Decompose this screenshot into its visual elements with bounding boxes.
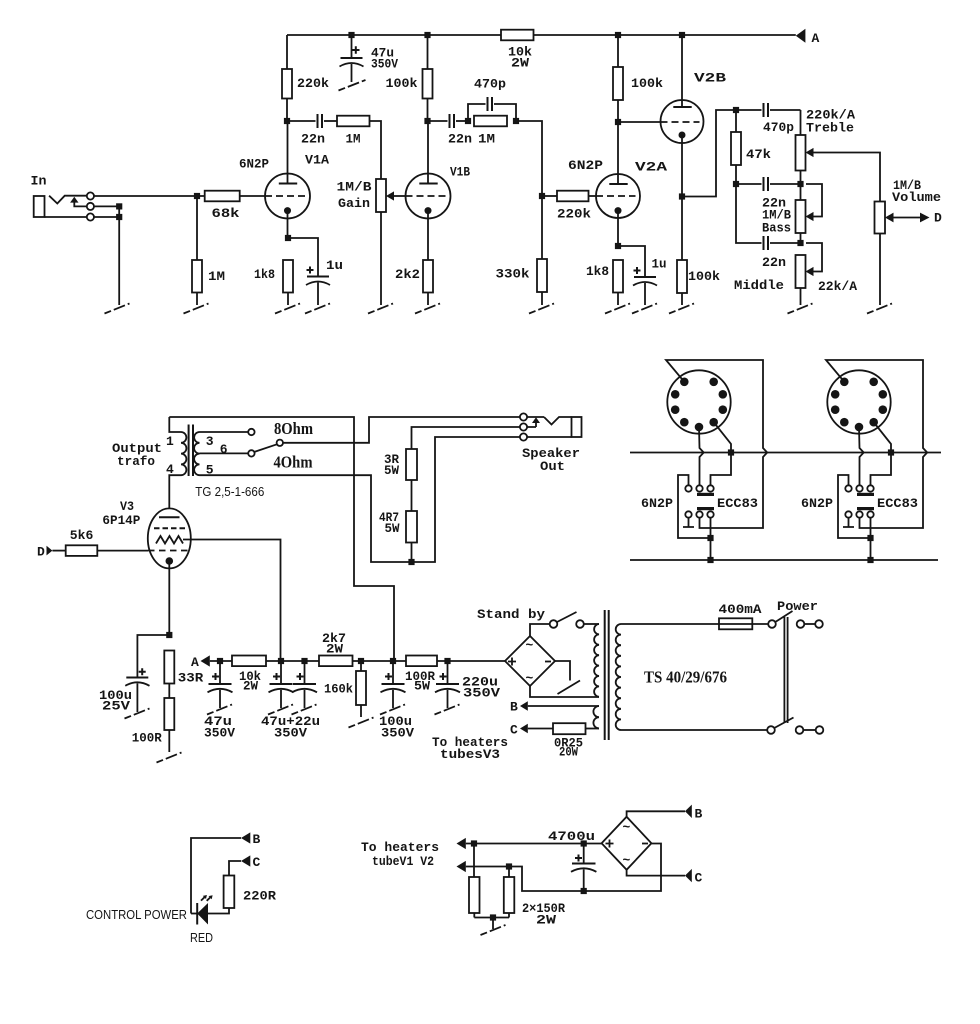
tube socket V2 (top view) bbox=[827, 370, 890, 433]
svg-text:1u: 1u bbox=[326, 258, 343, 273]
potentiometer 1M/B Bass bbox=[762, 184, 822, 243]
junction bbox=[301, 658, 307, 664]
ground bbox=[415, 304, 440, 314]
resistor 100k (V2B cathode load) bbox=[677, 260, 720, 305]
svg-text:8Ohm: 8Ohm bbox=[274, 419, 313, 438]
triode V1B bbox=[406, 121, 471, 260]
svg-text:Bass: Bass bbox=[762, 221, 791, 236]
junction V2A grid node bbox=[539, 193, 545, 199]
wire 47k to middle cap bbox=[736, 184, 762, 243]
svg-text:V1B: V1B bbox=[450, 165, 470, 180]
svg-text:330k: 330k bbox=[496, 267, 530, 282]
svg-text:2W: 2W bbox=[511, 56, 529, 71]
svg-text:350V: 350V bbox=[274, 726, 307, 741]
wire bridge bottom to transformer bbox=[530, 686, 599, 697]
wire 68k to V1A grid bbox=[240, 195, 265, 197]
resistor 47k bbox=[731, 110, 771, 184]
ground bbox=[125, 709, 150, 719]
terminal B (heater bridge out) bbox=[627, 805, 703, 822]
svg-text:100k: 100k bbox=[688, 269, 720, 284]
capacitor 22n (V1B coupling) bbox=[428, 114, 473, 147]
terminal B (LED feed) bbox=[191, 832, 261, 914]
svg-text:~: ~ bbox=[526, 671, 534, 686]
junction bbox=[707, 557, 713, 563]
triode V2B bbox=[661, 35, 727, 260]
svg-text:RED: RED bbox=[190, 930, 213, 945]
impedance selector switch 8/4 Ohm bbox=[200, 419, 314, 472]
resistor 1M (grid leak) bbox=[192, 198, 225, 305]
svg-text:6: 6 bbox=[220, 442, 228, 457]
svg-text:160k: 160k bbox=[324, 682, 353, 697]
svg-text:Out: Out bbox=[540, 459, 565, 474]
capacitor 47u 350V (rail filter) bbox=[340, 35, 399, 82]
junction bbox=[424, 32, 430, 38]
secondary winding pins 3-6-5 bbox=[194, 432, 199, 475]
junction bbox=[471, 840, 477, 846]
svg-text:20W: 20W bbox=[559, 745, 578, 760]
label to heaters tubes V3 bbox=[432, 735, 508, 762]
junction middle top bbox=[797, 240, 803, 246]
svg-text:tubeV1 V2: tubeV1 V2 bbox=[372, 854, 434, 869]
capacitor 47u 350V bbox=[204, 663, 235, 741]
triode V1A 6N2P bbox=[239, 121, 329, 238]
ground bbox=[632, 304, 657, 314]
svg-text:4Ohm: 4Ohm bbox=[274, 453, 313, 472]
junction tone stack input bbox=[733, 107, 739, 113]
junction bbox=[867, 535, 873, 541]
svg-text:In: In bbox=[31, 174, 47, 189]
standby switch bbox=[477, 607, 599, 636]
primary winding pins 1-4 bbox=[169, 417, 181, 432]
ground bbox=[275, 304, 300, 314]
socket V1 pin wire to heater bus bbox=[711, 422, 732, 485]
capacitor 47u (47u+22u) bbox=[261, 663, 320, 741]
svg-text:C: C bbox=[253, 855, 261, 870]
svg-text:1M: 1M bbox=[208, 269, 225, 284]
junction bbox=[728, 449, 734, 455]
junction bbox=[581, 840, 587, 846]
ground bbox=[339, 80, 366, 91]
bridge rectifier (heater) bbox=[602, 817, 652, 870]
svg-text:Middle: Middle bbox=[734, 278, 784, 293]
pentode V3 6P14P bbox=[102, 499, 190, 635]
B+ rail wires bbox=[266, 660, 505, 662]
terminal D (from volume pot) bbox=[37, 545, 52, 560]
svg-text:22k/A: 22k/A bbox=[818, 279, 857, 294]
capacitor 470p (bright cap) bbox=[468, 77, 516, 122]
svg-text:1: 1 bbox=[166, 434, 174, 449]
svg-text:~: ~ bbox=[526, 638, 534, 653]
capacitor 4700u bbox=[548, 829, 596, 891]
ground bbox=[435, 705, 460, 715]
svg-text:D: D bbox=[37, 545, 45, 560]
wire V2A plate to V2B grid bbox=[620, 121, 661, 123]
junction zobel bottom bbox=[408, 559, 414, 565]
junction bbox=[348, 32, 354, 38]
terminal C (LED feed) bbox=[229, 855, 261, 876]
heater bus wire 2 bbox=[630, 559, 938, 561]
label to heaters tube V1 V2 bbox=[361, 840, 439, 869]
input jack In bbox=[31, 174, 95, 221]
svg-text:68k: 68k bbox=[212, 206, 240, 221]
svg-text:400mA: 400mA bbox=[719, 602, 762, 617]
terminal D (to V3 grid) bbox=[920, 211, 942, 226]
terminal heater V1V2 wire 2 bbox=[457, 844, 662, 892]
wire jack tip to 68k bbox=[94, 195, 205, 197]
junction bbox=[465, 118, 471, 124]
capacitor 470p (treble) bbox=[736, 103, 801, 135]
svg-text:350V: 350V bbox=[371, 57, 398, 72]
heater link block V1 bbox=[641, 475, 758, 560]
svg-text:100R: 100R bbox=[132, 731, 162, 746]
resistor 2k7 2W bbox=[319, 631, 353, 666]
junction bbox=[513, 118, 519, 124]
capacitor 100u 25V (cathode bypass) bbox=[99, 635, 169, 714]
svg-text:1k8: 1k8 bbox=[586, 264, 609, 279]
fuse 400mA bbox=[621, 602, 768, 629]
ground bbox=[867, 304, 892, 314]
junction bbox=[444, 658, 450, 664]
potentiometer 1M/B Gain bbox=[337, 179, 406, 305]
ground bbox=[380, 705, 405, 715]
standby switch pole 2 lever bbox=[558, 681, 581, 695]
ground bbox=[184, 304, 209, 314]
svg-text:5W: 5W bbox=[414, 679, 430, 694]
svg-text:To heaters: To heaters bbox=[361, 840, 439, 855]
heater bus wire 1 bbox=[630, 452, 941, 454]
junction bbox=[358, 658, 364, 664]
resistor 100k (V2A plate load) bbox=[613, 35, 663, 122]
capacitor 22n (V1A coupling) bbox=[287, 114, 337, 147]
svg-text:220k: 220k bbox=[557, 207, 591, 222]
svg-text:1k8: 1k8 bbox=[254, 267, 275, 282]
resistor 10k 2W (rail dropper) bbox=[501, 30, 534, 71]
svg-text:5k6: 5k6 bbox=[70, 528, 94, 543]
capacitor 1u (V1A cathode bypass) bbox=[288, 238, 343, 305]
ground bbox=[268, 705, 293, 715]
wire speaker ring to zobel bbox=[412, 427, 520, 449]
svg-text:350V: 350V bbox=[463, 686, 500, 701]
svg-text:D: D bbox=[934, 211, 942, 226]
svg-text:350V: 350V bbox=[204, 726, 235, 741]
svg-text:Gain: Gain bbox=[338, 196, 370, 211]
svg-text:TS 40/29/676: TS 40/29/676 bbox=[644, 668, 727, 687]
terminal C (heater bridge out) bbox=[627, 869, 703, 886]
socket V1 wiring loop bbox=[666, 360, 767, 528]
ground bbox=[788, 304, 813, 314]
supply rail to terminal A bbox=[287, 34, 796, 36]
junction bass top bbox=[797, 181, 803, 187]
terminal B (heater winding) bbox=[510, 700, 599, 715]
svg-text:5W: 5W bbox=[384, 463, 399, 478]
resistor 220k (V1A plate load) bbox=[282, 35, 329, 121]
capacitor 22n (bass) bbox=[736, 177, 801, 211]
ground bbox=[305, 304, 330, 314]
potentiometer 22k/A Middle bbox=[734, 243, 857, 305]
svg-text:470p: 470p bbox=[474, 77, 506, 92]
junction bbox=[615, 32, 621, 38]
junction bbox=[490, 914, 496, 920]
resistor 220k (V2A grid stopper) bbox=[544, 191, 596, 222]
bridge rectifier (main) bbox=[505, 636, 555, 686]
ground bbox=[368, 304, 393, 314]
resistor 4R7 5W bbox=[379, 510, 417, 562]
capacitor 220u 350V bbox=[435, 663, 500, 708]
svg-text:Power: Power bbox=[777, 599, 818, 614]
speaker jack bbox=[520, 413, 582, 474]
svg-text:100k: 100k bbox=[631, 76, 663, 91]
svg-text:220k: 220k bbox=[297, 76, 329, 91]
ground bbox=[529, 304, 554, 314]
ground bbox=[292, 705, 317, 715]
svg-text:V1A: V1A bbox=[305, 153, 329, 168]
junction 47k bottom bbox=[733, 181, 739, 187]
svg-text:V2B: V2B bbox=[694, 71, 726, 86]
ground bbox=[157, 753, 182, 763]
resistor 100R 5W bbox=[405, 656, 437, 694]
power transformer TS 40/29/676 bbox=[593, 610, 727, 740]
resistor 68k bbox=[205, 191, 240, 221]
svg-text:tubesV3: tubesV3 bbox=[440, 747, 500, 762]
svg-text:2k2: 2k2 bbox=[395, 267, 420, 282]
wire jack ring/sleeve to ground bus bbox=[94, 206, 119, 305]
svg-text:1M: 1M bbox=[478, 132, 495, 147]
junction bbox=[888, 449, 894, 455]
terminal A (B+ rail) bbox=[191, 655, 232, 670]
resistor 150R #1 bbox=[469, 846, 480, 918]
heater link block V2 bbox=[801, 475, 918, 560]
ground bbox=[481, 925, 506, 935]
svg-text:22n: 22n bbox=[448, 132, 472, 147]
ground bbox=[105, 304, 130, 314]
svg-text:33R: 33R bbox=[178, 671, 204, 686]
svg-text:A: A bbox=[191, 655, 199, 670]
terminal C and resistor 0R25 20W bbox=[510, 723, 599, 760]
socket V1 pin9 wire bbox=[699, 427, 704, 486]
svg-text:Volume: Volume bbox=[892, 190, 941, 205]
wire V3 screen to PSU node bbox=[183, 540, 281, 662]
svg-text:~: ~ bbox=[623, 853, 631, 868]
svg-text:2W: 2W bbox=[536, 913, 556, 928]
svg-text:2W: 2W bbox=[326, 642, 343, 657]
wire 8 Ohm tap to speaker tip bbox=[283, 417, 520, 443]
svg-text:CONTROL POWER: CONTROL POWER bbox=[86, 907, 187, 922]
svg-text:1u: 1u bbox=[652, 257, 667, 272]
output transformer TG 2,5-1-666 bbox=[112, 417, 264, 509]
resistor 330k (V2A grid leak) bbox=[496, 259, 548, 305]
resistor 100R (V3 cathode) bbox=[132, 698, 175, 752]
svg-text:100k: 100k bbox=[386, 76, 418, 91]
junction bbox=[707, 535, 713, 541]
junction bbox=[506, 863, 512, 869]
svg-text:22n: 22n bbox=[762, 255, 786, 270]
tube socket V1 (top view) bbox=[667, 370, 730, 433]
resistor 1M (mixing) bbox=[474, 116, 507, 147]
junction V2A cathode node bbox=[615, 243, 621, 249]
wire 1M to gain pot bbox=[370, 121, 382, 179]
junction bbox=[194, 193, 200, 199]
LED RED bbox=[86, 895, 213, 945]
junction V1A plate node bbox=[284, 118, 290, 124]
svg-text:22n: 22n bbox=[301, 132, 325, 147]
svg-text:470p: 470p bbox=[763, 120, 794, 135]
svg-text:ECC83: ECC83 bbox=[717, 496, 758, 511]
wire to V2A grid node bbox=[518, 121, 542, 259]
wire B+ feed primary to PSU rail bbox=[169, 417, 394, 661]
resistor 33R (V3 cathode) bbox=[164, 651, 203, 699]
power switch bbox=[621, 599, 823, 734]
svg-text:B: B bbox=[253, 832, 261, 847]
junction bbox=[867, 557, 873, 563]
svg-text:ECC83: ECC83 bbox=[877, 496, 918, 511]
svg-text:TG 2,5-1-666: TG 2,5-1-666 bbox=[195, 484, 264, 499]
ground bbox=[605, 304, 630, 314]
resistor 1k8 (V1A cathode) bbox=[254, 260, 293, 305]
svg-text:6N2P: 6N2P bbox=[239, 157, 269, 172]
svg-text:6N2P: 6N2P bbox=[568, 158, 603, 173]
svg-text:Treble: Treble bbox=[806, 121, 854, 136]
svg-text:4700u: 4700u bbox=[548, 829, 595, 844]
svg-text:C: C bbox=[510, 723, 518, 738]
junction V3 cathode node bbox=[166, 632, 172, 638]
ground bbox=[207, 705, 232, 715]
capacitor 22n (middle) bbox=[762, 236, 801, 270]
svg-text:Stand by: Stand by bbox=[477, 607, 545, 622]
svg-text:B: B bbox=[510, 700, 518, 715]
wire 4 Ohm tap to speaker sleeve bbox=[200, 437, 520, 562]
svg-text:B: B bbox=[695, 807, 703, 822]
resistor 1M (V1B grid stopper) bbox=[337, 116, 370, 147]
junction V1B plate node bbox=[424, 118, 430, 124]
resistor 5k6 (V3 grid stopper) bbox=[52, 528, 148, 556]
svg-text:C: C bbox=[695, 871, 703, 886]
junction bbox=[278, 658, 284, 664]
ground bbox=[349, 718, 374, 728]
junction V2A plate node bbox=[615, 119, 621, 125]
svg-text:3: 3 bbox=[206, 434, 214, 449]
wire V2B cathode to tone stack bbox=[682, 110, 736, 197]
svg-text:25V: 25V bbox=[102, 699, 130, 714]
socket V2 pin9 wire bbox=[859, 427, 864, 486]
transformer core bbox=[189, 425, 193, 477]
svg-text:350V: 350V bbox=[381, 726, 414, 741]
svg-text:A: A bbox=[812, 31, 820, 46]
wire 150R commons to ground bbox=[474, 918, 509, 930]
potentiometer 1M/B Volume bbox=[875, 178, 942, 305]
capacitor 100u 350V bbox=[379, 663, 414, 741]
socket V2 pin wire to heater bus bbox=[871, 422, 892, 485]
junction V2B cathode node bbox=[679, 193, 685, 199]
resistor 100k (V1B plate load) bbox=[386, 35, 433, 121]
resistor 2k2 (V1B cathode) bbox=[395, 260, 433, 305]
junction V1A cathode node bbox=[285, 235, 291, 241]
junction bbox=[581, 888, 587, 894]
capacitor 22u (47u+22u) bbox=[292, 663, 317, 708]
svg-text:220R: 220R bbox=[243, 889, 276, 904]
socket V2 wiring loop bbox=[826, 360, 927, 528]
svg-text:6N2P: 6N2P bbox=[801, 496, 833, 511]
svg-text:6N2P: 6N2P bbox=[641, 496, 673, 511]
junction bbox=[116, 214, 122, 220]
wire bridge minus to standby pole 2 bbox=[555, 661, 570, 681]
svg-text:1M: 1M bbox=[346, 132, 361, 147]
svg-text:5W: 5W bbox=[385, 521, 400, 536]
svg-text:~: ~ bbox=[623, 820, 631, 835]
resistor 10k 2W bbox=[232, 656, 266, 694]
svg-text:6P14P: 6P14P bbox=[102, 513, 140, 528]
terminal A bbox=[796, 29, 820, 46]
junction bbox=[116, 203, 122, 209]
svg-text:1M/B: 1M/B bbox=[337, 180, 372, 195]
ground bbox=[669, 304, 694, 314]
junction bbox=[679, 32, 685, 38]
potentiometer 220k/A Treble bbox=[796, 108, 881, 202]
capacitor 1u (V2A cathode bypass) bbox=[618, 246, 667, 305]
terminal heater V1V2 wire 1 bbox=[457, 838, 602, 849]
resistor 160k bbox=[324, 663, 366, 717]
svg-text:trafo: trafo bbox=[117, 454, 155, 469]
junction bbox=[217, 658, 223, 664]
svg-text:2W: 2W bbox=[243, 679, 258, 694]
svg-text:47k: 47k bbox=[746, 147, 771, 162]
resistor 3R 5W bbox=[384, 449, 417, 511]
triode V2A 6N2P bbox=[568, 122, 667, 246]
resistor 1k8 (V2A cathode) bbox=[586, 260, 623, 305]
svg-text:V2A: V2A bbox=[635, 160, 667, 175]
resistor 220R bbox=[208, 876, 276, 914]
resistor 150R #2 bbox=[504, 869, 565, 928]
svg-text:V3: V3 bbox=[120, 499, 134, 514]
junction B+ from output transformer bbox=[390, 658, 396, 664]
